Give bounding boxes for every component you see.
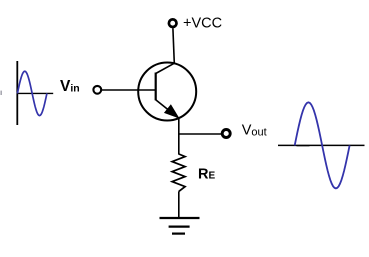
output waveform gray baseline mark xyxy=(297,145,310,147)
transistor collector stroke xyxy=(156,63,175,73)
wire collector to VCC xyxy=(173,28,174,63)
resistor RE zigzag xyxy=(172,154,185,191)
output waveform horizontal axis xyxy=(278,144,365,146)
input terminal xyxy=(93,86,101,94)
svg-text:Vout: Vout xyxy=(242,122,267,138)
transistor emitter arrowhead xyxy=(165,106,178,118)
terminal Vout xyxy=(222,130,230,138)
transistor base bar xyxy=(155,73,157,101)
svg-text:RE: RE xyxy=(198,167,215,183)
input sine wave xyxy=(17,71,47,115)
transistor Q1 circle xyxy=(138,63,196,121)
input waveform horizontal axis xyxy=(17,92,53,94)
svg-text:+VCC: +VCC xyxy=(183,16,222,32)
wire input terminal to base xyxy=(102,89,156,91)
wire emitter to output terminal xyxy=(179,133,221,135)
svg-text:Vin: Vin xyxy=(60,78,80,95)
ground xyxy=(160,218,200,234)
stray edge mark xyxy=(0,91,2,95)
input waveform vertical axis xyxy=(16,61,18,125)
output sine wave xyxy=(295,102,350,188)
terminal +VCC xyxy=(169,19,177,27)
transistor emitter stroke xyxy=(156,100,179,119)
wire resistor to ground xyxy=(178,191,180,217)
wire emitter down xyxy=(178,118,180,155)
